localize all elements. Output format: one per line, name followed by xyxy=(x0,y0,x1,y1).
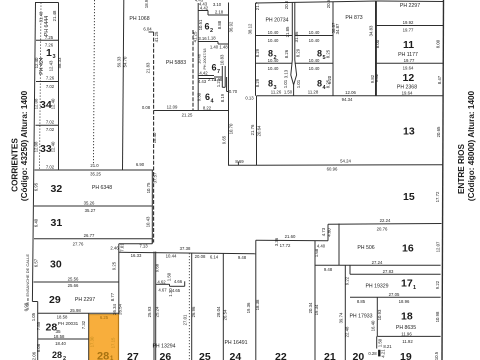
svg-text:1.50: 1.50 xyxy=(284,90,293,95)
svg-text:PH 424: PH 424 xyxy=(39,57,45,74)
wire parcel1 top xyxy=(36,39,59,41)
svg-text:10.40: 10.40 xyxy=(309,38,320,43)
svg-text:4.42: 4.42 xyxy=(199,70,208,75)
wire 37.38 top of 27/26/25/24 xyxy=(119,252,256,254)
svg-text:4.60: 4.60 xyxy=(327,228,332,237)
svg-text:20.76: 20.76 xyxy=(377,227,388,232)
svg-text:8.26: 8.26 xyxy=(284,49,289,58)
svg-text:9.68: 9.68 xyxy=(154,263,159,272)
wire 31 top y206 xyxy=(34,205,152,207)
parcel 13 left wire xyxy=(256,96,258,165)
svg-text:12.08: 12.08 xyxy=(34,98,39,109)
svg-text:7.13: 7.13 xyxy=(139,244,148,249)
parcel 16 left wire xyxy=(338,224,340,266)
11/12 block left wire xyxy=(375,1,377,96)
wire 28 mid y339 xyxy=(38,338,89,340)
svg-text:4.21: 4.21 xyxy=(381,349,386,358)
svg-text:20.5: 20.5 xyxy=(326,0,331,8)
svg-text:25.98: 25.98 xyxy=(70,308,81,313)
svg-text:25: 25 xyxy=(199,351,211,360)
svg-text:PH 873: PH 873 xyxy=(345,15,362,21)
svg-text:12.40: 12.40 xyxy=(34,57,39,68)
svg-text:11.92: 11.92 xyxy=(402,339,413,344)
svg-text:8.85: 8.85 xyxy=(357,299,366,304)
wire 29 top y282 xyxy=(34,281,119,283)
svg-text:(Código: 43250) Altura: 1400: (Código: 43250) Altura: 1400 xyxy=(20,90,29,201)
parcel 18 xyxy=(376,297,378,336)
svg-text:18.40: 18.40 xyxy=(55,341,66,346)
svg-text:6.57: 6.57 xyxy=(34,258,39,267)
svg-text:1.40: 1.40 xyxy=(210,45,219,50)
svg-text:0.70: 0.70 xyxy=(229,89,238,94)
svg-text:12.09: 12.09 xyxy=(167,105,178,110)
svg-text:26.54: 26.54 xyxy=(223,309,228,320)
svg-text:6.95: 6.95 xyxy=(34,182,39,191)
svg-text:6.04: 6.04 xyxy=(143,27,152,32)
svg-text:0.13: 0.13 xyxy=(245,96,254,101)
wire step 15/22 xyxy=(327,224,329,241)
svg-text:1.50: 1.50 xyxy=(166,272,171,281)
svg-text:25.93: 25.93 xyxy=(147,306,152,317)
svg-text:12.43: 12.43 xyxy=(49,60,54,71)
svg-text:19.64: 19.64 xyxy=(402,91,413,96)
svg-text:28: 28 xyxy=(52,350,62,360)
wire parcel34 top xyxy=(36,81,59,83)
svg-text:10.51: 10.51 xyxy=(198,19,203,30)
svg-text:18.40: 18.40 xyxy=(152,132,157,143)
svg-text:16.40: 16.40 xyxy=(371,320,376,331)
svg-text:6.20: 6.20 xyxy=(327,75,332,84)
svg-text:9.82: 9.82 xyxy=(374,73,379,82)
svg-text:PH 16491: PH 16491 xyxy=(224,340,247,346)
svg-text:19.34: 19.34 xyxy=(314,304,319,315)
svg-text:7.01: 7.01 xyxy=(120,243,125,252)
svg-text:18.96: 18.96 xyxy=(399,299,410,304)
svg-text:29: 29 xyxy=(49,294,61,306)
svg-text:18.38: 18.38 xyxy=(255,299,260,310)
svg-text:1.21: 1.21 xyxy=(216,78,221,87)
svg-text:21.60: 21.60 xyxy=(285,234,296,239)
svg-text:8.21: 8.21 xyxy=(383,344,392,349)
wire 11 top xyxy=(376,25,443,27)
svg-text:1: 1 xyxy=(46,47,52,59)
svg-text:10.93: 10.93 xyxy=(377,309,382,320)
svg-text:34.83: 34.83 xyxy=(369,25,374,36)
svg-text:9.30: 9.30 xyxy=(197,92,202,101)
svg-text:PH 20017/18: PH 20017/18 xyxy=(203,49,207,70)
svg-text:19.77: 19.77 xyxy=(403,28,414,33)
svg-text:17.30: 17.30 xyxy=(90,336,95,347)
svg-text:18.58: 18.58 xyxy=(57,315,68,320)
svg-text:34.87: 34.87 xyxy=(335,23,340,34)
svg-text:10.43: 10.43 xyxy=(146,216,151,227)
svg-text:19.64: 19.64 xyxy=(403,65,414,70)
svg-text:PH 6348: PH 6348 xyxy=(92,185,112,191)
svg-text:17.15: 17.15 xyxy=(111,337,116,348)
svg-text:7.02: 7.02 xyxy=(46,84,55,89)
wire y110 xyxy=(154,110,228,112)
svg-text:17.72: 17.72 xyxy=(435,191,440,202)
svg-text:21.76: 21.76 xyxy=(250,124,255,135)
svg-text:10.5: 10.5 xyxy=(434,351,439,360)
svg-text:2.18: 2.18 xyxy=(215,10,224,15)
svg-text:20.34: 20.34 xyxy=(308,302,313,313)
svg-text:39.74: 39.74 xyxy=(339,312,344,323)
svg-text:6.06: 6.06 xyxy=(36,343,41,352)
svg-text:8: 8 xyxy=(268,79,273,89)
svg-text:37.38: 37.38 xyxy=(180,246,191,251)
wire 6 block mid2 xyxy=(198,75,214,77)
svg-text:26: 26 xyxy=(160,351,172,360)
svg-text:PH 2297: PH 2297 xyxy=(75,297,95,303)
svg-text:4.40: 4.40 xyxy=(317,244,326,249)
svg-text:25.66: 25.66 xyxy=(68,283,79,288)
svg-text:6.14: 6.14 xyxy=(210,255,219,260)
inner dashed setback wire xyxy=(40,3,42,171)
wire 13 top y95.8 xyxy=(257,95,444,97)
svg-text:31.86: 31.86 xyxy=(294,31,299,42)
wire 24/22 boundary xyxy=(255,240,257,360)
svg-text:2: 2 xyxy=(63,356,66,360)
svg-text:20.08: 20.08 xyxy=(195,254,206,259)
svg-text:22.24: 22.24 xyxy=(380,218,391,223)
svg-text:21.25: 21.25 xyxy=(182,113,193,118)
svg-text:6: 6 xyxy=(212,63,217,73)
svg-text:ENTRE RIOS: ENTRE RIOS xyxy=(457,143,466,194)
svg-text:25.24: 25.24 xyxy=(155,306,160,317)
top-left parcel column outline xyxy=(36,2,59,4)
parcel 6 block outline xyxy=(197,3,199,111)
svg-text:20: 20 xyxy=(353,351,365,360)
svg-text:3.36: 3.36 xyxy=(274,237,279,246)
svg-text:1.18: 1.18 xyxy=(207,36,216,41)
svg-text:27.24: 27.24 xyxy=(372,260,383,265)
svg-text:19.36: 19.36 xyxy=(246,302,251,313)
svg-text:PH 17933: PH 17933 xyxy=(349,314,372,320)
svg-text:9.25: 9.25 xyxy=(112,261,117,270)
svg-text:11.96: 11.96 xyxy=(401,331,412,336)
svg-text:2.06: 2.06 xyxy=(32,351,37,360)
svg-text:18.9: 18.9 xyxy=(144,0,149,8)
svg-text:12.08: 12.08 xyxy=(34,141,39,152)
svg-text:13: 13 xyxy=(403,126,415,138)
wire 8 row1 xyxy=(256,35,293,37)
svg-text:11.28: 11.28 xyxy=(308,90,319,95)
parcel 30 right step xyxy=(151,239,153,244)
svg-text:9.65: 9.65 xyxy=(222,135,227,144)
svg-text:19: 19 xyxy=(400,351,412,360)
svg-text:8.47: 8.47 xyxy=(437,75,442,84)
svg-text:22: 22 xyxy=(275,351,287,360)
svg-text:12.40: 12.40 xyxy=(51,141,56,152)
svg-text:26.54: 26.54 xyxy=(117,304,122,315)
svg-text:26.96: 26.96 xyxy=(191,306,196,317)
left street boundary wire xyxy=(32,2,35,302)
svg-text:12: 12 xyxy=(403,72,415,84)
svg-text:21.0: 21.0 xyxy=(90,163,99,168)
svg-text:0.28: 0.28 xyxy=(368,351,377,356)
svg-text:4.73: 4.73 xyxy=(321,227,326,236)
svg-text:21: 21 xyxy=(324,351,336,360)
svg-text:27.01: 27.01 xyxy=(183,314,188,325)
svg-text:31.40: 31.40 xyxy=(39,11,44,22)
svg-text:60.96: 60.96 xyxy=(327,166,338,171)
svg-text:35.27: 35.27 xyxy=(85,208,96,213)
svg-text:21.7: 21.7 xyxy=(255,1,260,10)
svg-text:18: 18 xyxy=(401,311,413,323)
svg-text:21.48: 21.48 xyxy=(52,10,57,21)
wire 25/24 boundary xyxy=(222,253,224,360)
svg-text:4.43: 4.43 xyxy=(195,0,204,3)
svg-text:20.65: 20.65 xyxy=(436,126,441,137)
svg-text:PH 19329: PH 19329 xyxy=(365,284,388,290)
svg-text:12.07: 12.07 xyxy=(436,241,441,252)
svg-text:3: 3 xyxy=(53,54,56,60)
parcel 20 / PH 17933 xyxy=(349,296,351,298)
svg-text:8.22: 8.22 xyxy=(203,105,212,110)
svg-text:7.85: 7.85 xyxy=(36,321,41,330)
parcel PH 873 xyxy=(375,1,377,96)
svg-text:10.40: 10.40 xyxy=(309,58,320,63)
svg-text:6.25: 6.25 xyxy=(100,315,109,320)
svg-text:PH 13294: PH 13294 xyxy=(152,344,175,350)
svg-text:22.48: 22.48 xyxy=(345,326,350,337)
svg-text:2: 2 xyxy=(210,28,213,34)
svg-text:17.72: 17.72 xyxy=(280,243,291,248)
svg-text:11.26: 11.26 xyxy=(271,90,282,95)
svg-text:PH 20734: PH 20734 xyxy=(265,18,288,24)
svg-text:10.40: 10.40 xyxy=(268,66,279,71)
svg-text:6.40: 6.40 xyxy=(34,218,39,227)
svg-text:9.22: 9.22 xyxy=(435,280,440,289)
svg-text:28: 28 xyxy=(97,351,109,360)
svg-text:PH 5883: PH 5883 xyxy=(166,60,186,66)
svg-text:4.67: 4.67 xyxy=(158,287,167,292)
svg-text:4.43: 4.43 xyxy=(198,79,207,84)
svg-text:7.02: 7.02 xyxy=(46,120,55,125)
svg-text:37.57: 37.57 xyxy=(152,172,157,183)
wire 30 top y240.5 xyxy=(34,238,152,240)
svg-text:1: 1 xyxy=(413,285,416,291)
svg-text:6: 6 xyxy=(205,92,210,102)
svg-text:PH 2297: PH 2297 xyxy=(400,3,420,9)
wire 12 top xyxy=(376,62,444,64)
parcel 19 notch xyxy=(376,336,378,348)
svg-text:54.24: 54.24 xyxy=(340,158,351,163)
svg-text:27: 27 xyxy=(127,351,139,360)
svg-text:20.64: 20.64 xyxy=(257,125,262,136)
svg-text:PH 506: PH 506 xyxy=(357,245,374,251)
svg-text:4.62: 4.62 xyxy=(157,279,166,284)
svg-text:28.04: 28.04 xyxy=(216,306,221,317)
svg-text:1.50: 1.50 xyxy=(378,338,383,347)
svg-text:8.69: 8.69 xyxy=(235,159,244,164)
wire 13 bottom y165 xyxy=(228,164,444,167)
svg-text:10.75: 10.75 xyxy=(146,182,151,193)
svg-text:8.29: 8.29 xyxy=(255,48,260,57)
svg-text:36.92: 36.92 xyxy=(229,21,234,32)
svg-text:59.33: 59.33 xyxy=(117,56,122,67)
svg-text:41.25: 41.25 xyxy=(154,31,159,42)
wire 16 top y223.5 xyxy=(328,223,442,226)
svg-text:35.26: 35.26 xyxy=(84,201,95,206)
svg-text:15: 15 xyxy=(403,191,415,203)
svg-text:9.48: 9.48 xyxy=(238,255,247,260)
svg-text:8: 8 xyxy=(317,79,322,89)
svg-text:9.48: 9.48 xyxy=(324,267,333,272)
svg-text:8.25: 8.25 xyxy=(326,49,331,58)
svg-text:7.02: 7.02 xyxy=(46,165,55,170)
svg-text:32: 32 xyxy=(51,183,63,195)
svg-text:8.29: 8.29 xyxy=(296,48,301,57)
wire parcel33 top xyxy=(36,124,59,126)
svg-text:6: 6 xyxy=(205,22,210,32)
parcel 28 highlighted orange xyxy=(89,315,119,360)
svg-text:10.98: 10.98 xyxy=(435,311,440,322)
svg-text:20.8: 20.8 xyxy=(284,0,289,9)
svg-text:10.46: 10.46 xyxy=(197,53,202,64)
svg-text:0.08: 0.08 xyxy=(142,105,151,110)
svg-text:5.98 m ENSANCHE DE CALLE: 5.98 m ENSANCHE DE CALLE xyxy=(25,254,30,310)
svg-text:8.88: 8.88 xyxy=(217,20,222,29)
wire 19 top y336.4 xyxy=(377,335,440,337)
svg-text:41.25: 41.25 xyxy=(193,31,198,42)
wire 29 bottom y308 xyxy=(38,312,119,314)
svg-text:10.40: 10.40 xyxy=(309,66,320,71)
parcel 27 left wire xyxy=(118,315,120,360)
svg-text:11: 11 xyxy=(403,39,414,51)
svg-text:58.33: 58.33 xyxy=(57,57,62,68)
wire 26/25 boundary dashed xyxy=(188,253,190,360)
svg-text:10.70: 10.70 xyxy=(229,123,234,134)
svg-text:8.29: 8.29 xyxy=(255,78,260,87)
svg-text:1.30: 1.30 xyxy=(168,288,173,297)
corridor wire x127 xyxy=(123,0,124,170)
svg-text:1.48: 1.48 xyxy=(219,45,228,50)
svg-text:19.92: 19.92 xyxy=(403,20,414,25)
svg-text:35.25: 35.25 xyxy=(90,171,101,176)
svg-text:PH 8635: PH 8635 xyxy=(396,325,416,331)
svg-text:6.90: 6.90 xyxy=(136,162,145,167)
svg-text:4.42: 4.42 xyxy=(200,6,209,11)
svg-text:24: 24 xyxy=(230,351,242,360)
svg-text:18.58: 18.58 xyxy=(54,334,65,339)
svg-text:10.40: 10.40 xyxy=(268,30,279,35)
parcel PH 2297 xyxy=(376,0,443,3)
svg-text:38.12: 38.12 xyxy=(248,23,253,34)
wire 18 top y297.3 xyxy=(350,296,441,298)
svg-text:(Código: 48000) Altura: 1400: (Código: 48000) Altura: 1400 xyxy=(467,90,476,201)
wire row line y170 xyxy=(35,169,154,171)
svg-text:27.76: 27.76 xyxy=(73,242,84,247)
svg-text:12.40: 12.40 xyxy=(51,98,56,109)
svg-text:3.13: 3.13 xyxy=(284,69,289,78)
svg-text:10.40: 10.40 xyxy=(268,58,279,63)
svg-text:21.83: 21.83 xyxy=(146,62,151,73)
svg-text:27.83: 27.83 xyxy=(383,269,394,274)
svg-text:12.06: 12.06 xyxy=(345,90,356,95)
svg-text:10.40: 10.40 xyxy=(309,30,320,35)
svg-text:94.34: 94.34 xyxy=(342,97,353,102)
svg-text:7.32: 7.32 xyxy=(81,320,86,329)
svg-text:54.70: 54.70 xyxy=(123,56,128,67)
svg-text:1.05: 1.05 xyxy=(31,312,36,321)
wire 16 bottom y265.2 xyxy=(315,264,441,266)
svg-text:27.05: 27.05 xyxy=(389,292,400,297)
survey wire x193 xyxy=(192,30,194,111)
wire 17 top step xyxy=(349,265,351,274)
8 block center double wire xyxy=(291,3,294,85)
svg-text:26.77: 26.77 xyxy=(84,233,95,238)
right street boundary wire xyxy=(442,0,444,360)
svg-text:31: 31 xyxy=(51,217,63,229)
wire 6 block mid1 xyxy=(198,41,218,43)
svg-text:4.66: 4.66 xyxy=(174,279,183,284)
parcel 26 notch xyxy=(156,283,170,285)
parcel 32 xyxy=(151,170,153,244)
svg-text:PH 6444: PH 6444 xyxy=(44,16,50,36)
svg-text:8.00: 8.00 xyxy=(436,39,441,48)
svg-text:10.83: 10.83 xyxy=(220,54,225,65)
svg-text:1.01: 1.01 xyxy=(296,79,301,88)
parcel 22 top wire xyxy=(256,239,328,242)
svg-text:7: 7 xyxy=(217,69,220,75)
svg-text:10.40: 10.40 xyxy=(268,38,279,43)
svg-text:8.19: 8.19 xyxy=(220,93,225,102)
svg-text:1.01: 1.01 xyxy=(283,79,288,88)
svg-text:7.26: 7.26 xyxy=(46,76,55,81)
svg-text:3.16: 3.16 xyxy=(198,36,207,41)
svg-text:10.44: 10.44 xyxy=(166,254,177,259)
parcel 8 block outline xyxy=(255,3,257,96)
svg-text:16.33: 16.33 xyxy=(131,253,142,258)
svg-text:4.65: 4.65 xyxy=(172,288,181,293)
svg-text:26.34: 26.34 xyxy=(112,304,117,315)
svg-text:7.02: 7.02 xyxy=(46,127,55,132)
svg-text:0.98: 0.98 xyxy=(24,302,29,311)
svg-text:2.46: 2.46 xyxy=(110,245,119,250)
svg-text:16: 16 xyxy=(402,243,414,255)
svg-text:3.10: 3.10 xyxy=(213,2,222,7)
svg-text:8.77: 8.77 xyxy=(110,292,115,301)
svg-text:30: 30 xyxy=(50,259,62,271)
survey wire x153 xyxy=(149,31,154,33)
svg-text:PH 20031: PH 20031 xyxy=(58,321,79,326)
dashed corridor wire x94 xyxy=(94,0,95,164)
svg-text:PH 1068: PH 1068 xyxy=(129,16,149,22)
svg-text:25.56: 25.56 xyxy=(68,277,79,282)
wire 22/21 boundary x314 xyxy=(314,241,316,360)
svg-text:19.77: 19.77 xyxy=(404,58,415,63)
svg-text:CORRIENTES: CORRIENTES xyxy=(11,138,20,192)
wire 8 row2 xyxy=(256,62,293,64)
svg-text:7.25: 7.25 xyxy=(45,35,54,40)
wire 21/PH17933 boundary x344.6 xyxy=(344,265,346,360)
svg-text:17: 17 xyxy=(401,278,413,290)
wire 27/26 double boundary xyxy=(153,252,155,360)
